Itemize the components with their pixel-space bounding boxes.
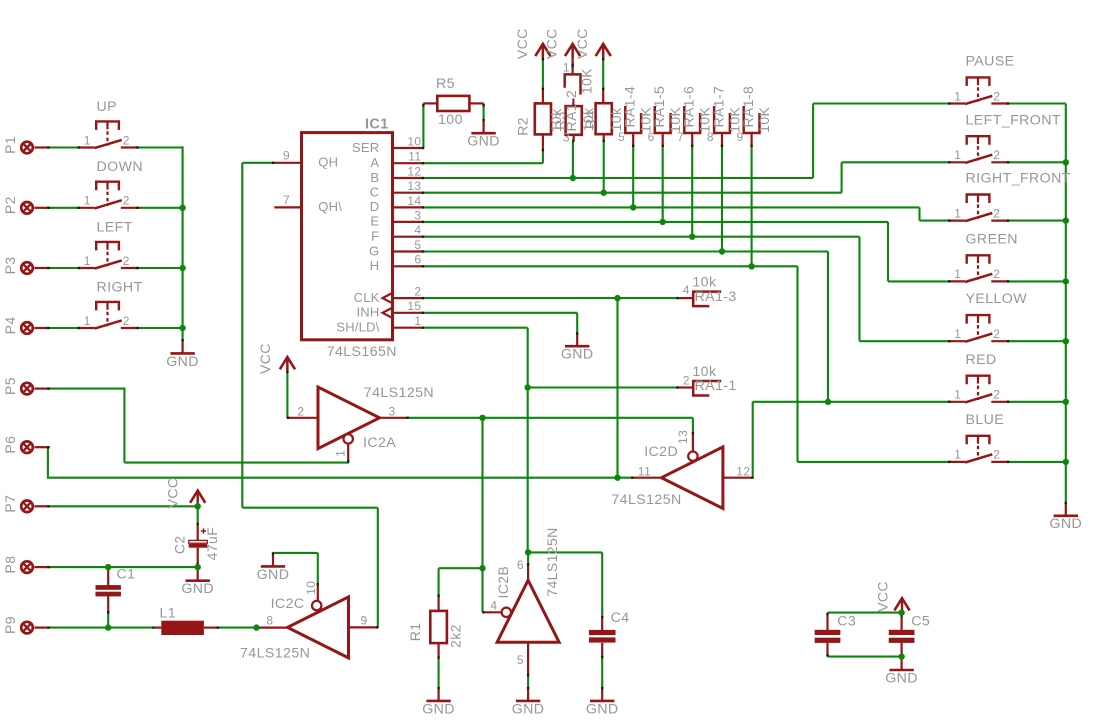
- svg-text:5: 5: [414, 238, 421, 252]
- svg-text:5: 5: [618, 130, 625, 144]
- svg-text:2: 2: [297, 404, 304, 418]
- svg-text:47uF: 47uF: [204, 527, 220, 561]
- svg-text:1: 1: [954, 267, 961, 281]
- svg-text:CLK: CLK: [354, 290, 380, 305]
- svg-text:VCC: VCC: [544, 28, 560, 59]
- svg-text:10K: 10K: [579, 68, 595, 94]
- svg-text:4: 4: [414, 223, 421, 237]
- svg-text:E: E: [370, 214, 379, 229]
- svg-text:B: B: [370, 170, 379, 185]
- svg-text:BLUE: BLUE: [966, 412, 1005, 428]
- svg-text:QH\: QH\: [318, 199, 342, 214]
- svg-text:RED: RED: [966, 352, 997, 368]
- svg-text:74LS125N: 74LS125N: [240, 645, 310, 661]
- svg-text:12: 12: [407, 164, 421, 178]
- svg-text:P3: P3: [2, 256, 18, 274]
- svg-text:R3: R3: [552, 111, 568, 130]
- svg-text:GND: GND: [586, 701, 619, 717]
- svg-text:10K: 10K: [756, 106, 772, 132]
- svg-text:GND: GND: [561, 347, 594, 363]
- svg-text:F: F: [371, 229, 379, 244]
- svg-text:DOWN: DOWN: [97, 159, 144, 175]
- svg-text:4: 4: [490, 598, 497, 612]
- svg-text:RA1-4: RA1-4: [622, 86, 638, 128]
- svg-text:2: 2: [993, 327, 1000, 341]
- svg-text:R1: R1: [407, 623, 423, 642]
- svg-text:L1: L1: [160, 605, 177, 621]
- svg-text:INH: INH: [357, 305, 380, 320]
- svg-text:2: 2: [993, 89, 1000, 103]
- svg-text:H: H: [370, 258, 380, 273]
- svg-text:SH/LD\: SH/LD\: [336, 320, 379, 335]
- svg-text:VCC: VCC: [164, 478, 180, 509]
- svg-text:6: 6: [648, 130, 655, 144]
- svg-text:74LS125N: 74LS125N: [611, 492, 681, 508]
- svg-text:VCC: VCC: [574, 28, 590, 59]
- svg-text:SER: SER: [352, 140, 379, 155]
- svg-text:1: 1: [954, 448, 961, 462]
- svg-text:6: 6: [517, 558, 524, 572]
- svg-text:9: 9: [737, 130, 744, 144]
- svg-text:R4: R4: [582, 110, 598, 129]
- svg-text:12: 12: [736, 464, 750, 478]
- svg-text:2: 2: [123, 254, 130, 268]
- svg-text:RA1-5: RA1-5: [651, 86, 667, 128]
- svg-text:13: 13: [407, 179, 421, 193]
- svg-text:1: 1: [954, 388, 961, 402]
- svg-text:P4: P4: [2, 316, 18, 334]
- svg-text:2: 2: [993, 267, 1000, 281]
- svg-text:GND: GND: [166, 354, 199, 370]
- svg-text:1: 1: [954, 206, 961, 220]
- svg-text:C1: C1: [117, 567, 136, 583]
- svg-text:2: 2: [993, 448, 1000, 462]
- svg-text:2: 2: [993, 206, 1000, 220]
- svg-text:GND: GND: [1049, 516, 1082, 532]
- svg-text:1: 1: [954, 89, 961, 103]
- svg-text:IC2B: IC2B: [495, 566, 511, 599]
- svg-text:9: 9: [283, 148, 290, 162]
- svg-text:15: 15: [407, 299, 421, 313]
- svg-text:P6: P6: [2, 436, 18, 454]
- svg-text:RIGHT: RIGHT: [97, 279, 143, 295]
- svg-text:RA1-3: RA1-3: [695, 289, 737, 305]
- svg-text:VCC: VCC: [875, 581, 891, 612]
- svg-text:LEFT: LEFT: [97, 219, 133, 235]
- svg-text:1: 1: [954, 148, 961, 162]
- svg-text:C3: C3: [837, 614, 856, 630]
- svg-text:6: 6: [414, 253, 421, 267]
- svg-text:13: 13: [676, 430, 690, 444]
- svg-text:P1: P1: [2, 136, 18, 154]
- svg-text:1: 1: [954, 327, 961, 341]
- svg-text:YELLOW: YELLOW: [966, 291, 1028, 307]
- svg-text:10: 10: [304, 581, 318, 595]
- svg-text:LEFT_FRONT: LEFT_FRONT: [966, 112, 1061, 128]
- svg-text:GND: GND: [467, 134, 500, 150]
- svg-text:1: 1: [84, 254, 91, 268]
- svg-text:1: 1: [84, 194, 91, 208]
- svg-text:IC2C: IC2C: [271, 596, 305, 612]
- svg-text:2: 2: [683, 373, 690, 387]
- svg-text:2: 2: [993, 388, 1000, 402]
- svg-text:RA1-7: RA1-7: [710, 86, 726, 128]
- svg-text:A: A: [370, 155, 379, 170]
- svg-text:2: 2: [123, 314, 130, 328]
- svg-text:5: 5: [517, 653, 524, 667]
- svg-text:GREEN: GREEN: [966, 231, 1018, 247]
- svg-text:C4: C4: [611, 610, 630, 626]
- svg-text:PAUSE: PAUSE: [966, 54, 1015, 70]
- svg-text:VCC: VCC: [257, 343, 273, 374]
- svg-text:P7: P7: [2, 495, 18, 513]
- svg-text:RA1-6: RA1-6: [681, 86, 697, 128]
- svg-text:VCC: VCC: [514, 28, 530, 59]
- svg-text:R5: R5: [436, 76, 455, 92]
- svg-text:QH: QH: [318, 155, 338, 170]
- svg-text:D: D: [370, 199, 380, 214]
- svg-text:2: 2: [123, 133, 130, 147]
- svg-text:2: 2: [993, 148, 1000, 162]
- svg-text:RIGHT_FRONT: RIGHT_FRONT: [966, 171, 1071, 187]
- svg-text:R2: R2: [515, 117, 531, 136]
- svg-text:2k2: 2k2: [447, 624, 463, 648]
- svg-text:GND: GND: [885, 670, 918, 686]
- svg-text:C: C: [370, 185, 380, 200]
- svg-text:C5: C5: [911, 614, 930, 630]
- svg-text:P5: P5: [2, 377, 18, 395]
- svg-text:4: 4: [683, 283, 690, 297]
- svg-text:P2: P2: [2, 196, 18, 214]
- svg-text:14: 14: [407, 194, 421, 208]
- svg-text:8: 8: [266, 614, 273, 628]
- svg-text:74LS125N: 74LS125N: [544, 527, 560, 596]
- svg-text:11: 11: [638, 464, 651, 478]
- svg-text:11: 11: [408, 150, 421, 164]
- svg-text:3: 3: [389, 404, 396, 418]
- svg-text:9: 9: [361, 614, 368, 628]
- svg-text:RA1-8: RA1-8: [740, 86, 756, 128]
- svg-text:P8: P8: [2, 556, 18, 574]
- svg-text:GND: GND: [512, 701, 545, 717]
- svg-text:C2: C2: [171, 535, 187, 554]
- svg-text:74LS125N: 74LS125N: [364, 385, 434, 401]
- svg-text:8: 8: [707, 130, 714, 144]
- svg-text:P9: P9: [2, 616, 18, 634]
- svg-text:3: 3: [563, 130, 570, 144]
- svg-text:1: 1: [563, 61, 570, 75]
- svg-text:3: 3: [414, 208, 421, 222]
- svg-text:100: 100: [438, 112, 463, 128]
- svg-text:2: 2: [123, 194, 130, 208]
- svg-text:74LS165N: 74LS165N: [327, 344, 397, 360]
- svg-text:1: 1: [84, 314, 91, 328]
- svg-text:10: 10: [407, 134, 421, 148]
- svg-text:IC1: IC1: [365, 116, 389, 132]
- svg-text:GND: GND: [257, 567, 290, 583]
- svg-text:GND: GND: [422, 701, 455, 717]
- svg-text:UP: UP: [97, 99, 118, 115]
- svg-text:7: 7: [283, 193, 290, 207]
- svg-text:G: G: [369, 243, 379, 258]
- svg-text:IC2D: IC2D: [644, 444, 678, 460]
- svg-text:GND: GND: [181, 581, 214, 597]
- svg-text:RA1-1: RA1-1: [695, 378, 737, 394]
- svg-text:1: 1: [414, 314, 421, 328]
- svg-text:1: 1: [333, 450, 347, 457]
- svg-text:1: 1: [84, 133, 91, 147]
- svg-text:2: 2: [414, 285, 421, 299]
- svg-text:7: 7: [677, 130, 684, 144]
- svg-text:IC2A: IC2A: [363, 435, 396, 451]
